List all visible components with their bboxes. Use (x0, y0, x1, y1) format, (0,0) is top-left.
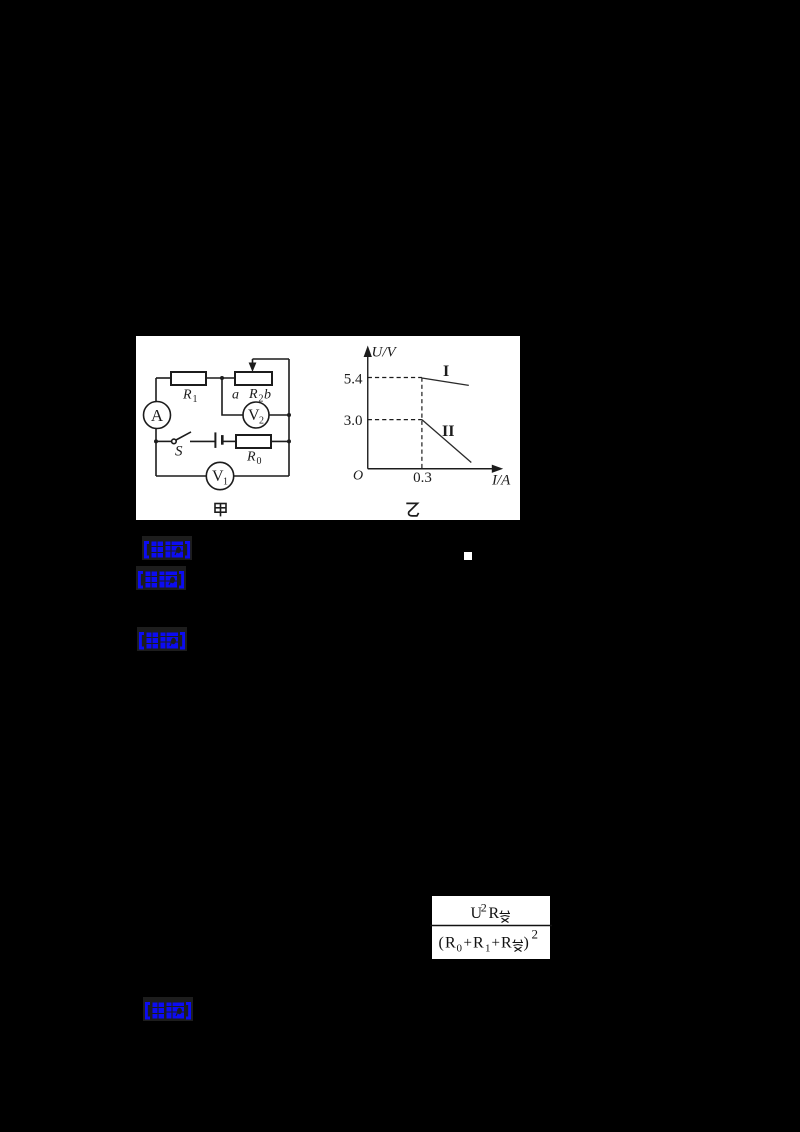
svg-text:R: R (246, 450, 256, 465)
wire V1 to right rail (234, 475, 289, 477)
voltmeter V2 (243, 402, 269, 428)
Y axis arrow (364, 346, 372, 358)
svg-text:2: 2 (481, 901, 487, 915)
变 subscript (denominator) (513, 940, 524, 952)
node left rail middle row (154, 439, 158, 443)
svg-text:): ) (524, 935, 529, 952)
blue marker 1 (142, 536, 192, 560)
blue marker 4 (143, 997, 193, 1021)
curve I (422, 378, 469, 385)
wire R1 to R2 (206, 377, 235, 379)
svg-text:II: II (442, 423, 454, 440)
svg-text:1: 1 (193, 394, 198, 405)
label 甲 (215, 504, 226, 517)
dashed 3.0 level (368, 419, 422, 421)
wiper arrow of R2 (252, 359, 254, 364)
wire bottom to V1 (156, 475, 206, 477)
svg-text:b: b (264, 388, 271, 403)
X axis arrow (492, 465, 503, 473)
ammeter A (144, 402, 171, 429)
resistor R0 (236, 435, 271, 448)
wire V2 to right rail (269, 414, 289, 416)
svg-text:I/A: I/A (491, 472, 511, 488)
svg-text:2: 2 (259, 394, 264, 405)
node R0-right rail (287, 439, 291, 443)
voltmeter V1 (206, 462, 233, 489)
svg-text:S: S (175, 444, 183, 460)
dashed 0.3 vertical (421, 378, 423, 469)
wire to switch (156, 440, 172, 442)
node V2-right rail (287, 413, 291, 417)
svg-text:R: R (489, 905, 500, 922)
dashed 5.4 level (368, 377, 422, 379)
svg-text:R: R (445, 935, 456, 952)
rheostat R2 (235, 372, 272, 385)
graph axes (368, 351, 496, 469)
svg-text:O: O (353, 468, 363, 483)
white square bullet (464, 552, 472, 560)
wire switch to battery (190, 440, 215, 442)
wire top row to R1 (156, 377, 171, 379)
svg-text:(: ( (439, 935, 444, 952)
svg-text:I: I (443, 363, 449, 380)
svg-text:R: R (182, 388, 192, 403)
wire battery to R0 (222, 440, 236, 442)
Y axis (367, 351, 369, 469)
变 subscript (numerator) (500, 911, 511, 923)
wire wiper top to right rail (253, 358, 290, 360)
wire R0 to right rail (271, 440, 289, 442)
wire right rail (288, 359, 290, 476)
wire V2 branch (222, 378, 243, 415)
switch S (172, 439, 177, 444)
svg-text:R: R (248, 387, 258, 402)
node junction R1-R2-V2 (220, 376, 224, 380)
svg-text:0: 0 (257, 456, 262, 467)
svg-text:0: 0 (457, 943, 463, 955)
svg-text:R: R (473, 935, 484, 952)
wire left rail top (155, 378, 157, 402)
svg-text:R: R (501, 935, 512, 952)
blue marker 3 (137, 627, 187, 651)
blue marker 2 (136, 566, 186, 590)
svg-text:0.3: 0.3 (413, 470, 432, 486)
svg-text:A: A (151, 406, 164, 425)
X axis (368, 468, 496, 470)
svg-text:5.4: 5.4 (344, 372, 363, 388)
svg-text:+: + (464, 935, 472, 951)
fraction bar (430, 925, 552, 927)
svg-text:2: 2 (259, 416, 264, 427)
curve II (422, 420, 471, 463)
resistor R1 (171, 372, 206, 385)
label 乙 (406, 503, 418, 516)
svg-text:+: + (492, 935, 500, 951)
formula box: U^2 R变 / (R0+R1+R变)^2 (428, 896, 554, 960)
battery (214, 432, 216, 448)
wire left rail bottom (155, 429, 157, 477)
svg-text:a: a (232, 388, 239, 403)
svg-text:2: 2 (532, 927, 539, 942)
svg-text:3.0: 3.0 (344, 413, 363, 429)
svg-text:1: 1 (485, 943, 491, 955)
figure panel (circuit 甲 + graph 乙) (136, 336, 520, 520)
svg-text:1: 1 (223, 477, 228, 488)
svg-text:U/V: U/V (372, 345, 398, 361)
